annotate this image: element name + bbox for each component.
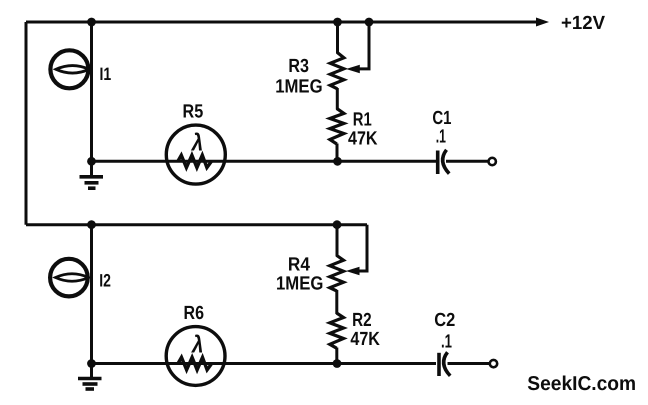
node: lower rail / R4 junction (333, 220, 342, 229)
capacitor C2 (439, 352, 450, 376)
svg-text:.1: .1 (441, 332, 452, 353)
wire: left feed from top rail down to lower rail (25, 22, 28, 225)
potentiometer R3 element (zigzag) (330, 53, 344, 89)
svg-text:47K: 47K (350, 329, 380, 350)
svg-text:C2: C2 (434, 310, 455, 331)
output terminal (upper) (489, 158, 496, 165)
svg-text:1MEG: 1MEG (276, 273, 323, 294)
wire: C2 to lower output (448, 362, 490, 365)
wire: R3 to R1 link (336, 88, 339, 110)
node: R1 / signal row junction (333, 157, 342, 166)
svg-text:47K: 47K (348, 129, 378, 150)
wire: R3 wiper arm (356, 22, 369, 69)
output terminal (lower) (490, 360, 497, 367)
svg-text:+12V: +12V (561, 13, 605, 34)
svg-text:R4: R4 (288, 254, 310, 275)
resistor R2 (zigzag) (330, 313, 344, 348)
wire: upper signal row (92, 160, 437, 163)
node: lower rail / I2 branch junction (87, 220, 96, 229)
ground (lower) (78, 364, 102, 390)
svg-text:.1: .1 (436, 127, 446, 148)
svg-text:I2: I2 (99, 271, 111, 291)
wire: C1 to upper output (446, 160, 489, 163)
photocell R6 (166, 327, 225, 386)
node: top rail / I1 branch junction (87, 18, 96, 27)
capacitor C1 (438, 150, 450, 174)
wire: I1 branch vertical (90, 22, 93, 161)
svg-text:λ: λ (190, 331, 203, 358)
wire: I2 branch vertical (90, 225, 93, 364)
wire: lower signal row (92, 362, 437, 365)
svg-text:R3: R3 (288, 56, 309, 77)
wire: R4 to R2 link (335, 290, 338, 314)
lamp I2 (50, 259, 88, 297)
wire: R4 top lead (336, 225, 339, 257)
wire: R3 top lead (336, 22, 339, 54)
node: I1 / R5 / ground junction (87, 157, 96, 166)
+12V supply arrowhead (536, 18, 549, 27)
ground (upper) (80, 161, 104, 188)
photocell R5 (166, 125, 225, 184)
svg-text:λ: λ (190, 130, 203, 157)
wire: R1 bottom lead (336, 144, 339, 162)
R4 wiper arrowhead (346, 267, 360, 276)
lamp I1 (50, 50, 89, 88)
resistor R1 (zigzag) (330, 109, 344, 145)
svg-text:SeekIC.com: SeekIC.com (527, 373, 636, 395)
node: top rail / R3 junction (333, 18, 342, 27)
svg-text:R5: R5 (183, 102, 204, 123)
wire: +12V top supply rail (26, 21, 540, 24)
potentiometer R4 element (zigzag) (330, 256, 344, 292)
wire: R4 wiper arm (356, 225, 367, 271)
node: I2 / R6 / ground junction (87, 359, 96, 368)
svg-text:1MEG: 1MEG (275, 76, 322, 97)
svg-text:R1: R1 (353, 109, 372, 130)
svg-text:I1: I1 (100, 64, 112, 84)
node: R2 / signal row junction (333, 359, 342, 368)
R3 wiper arrowhead (346, 65, 360, 74)
wire: lower supply rail (26, 223, 367, 226)
node: top rail / R3 wiper junction (365, 18, 374, 27)
wire: R2 bottom lead (335, 348, 338, 364)
svg-text:R6: R6 (184, 303, 205, 324)
